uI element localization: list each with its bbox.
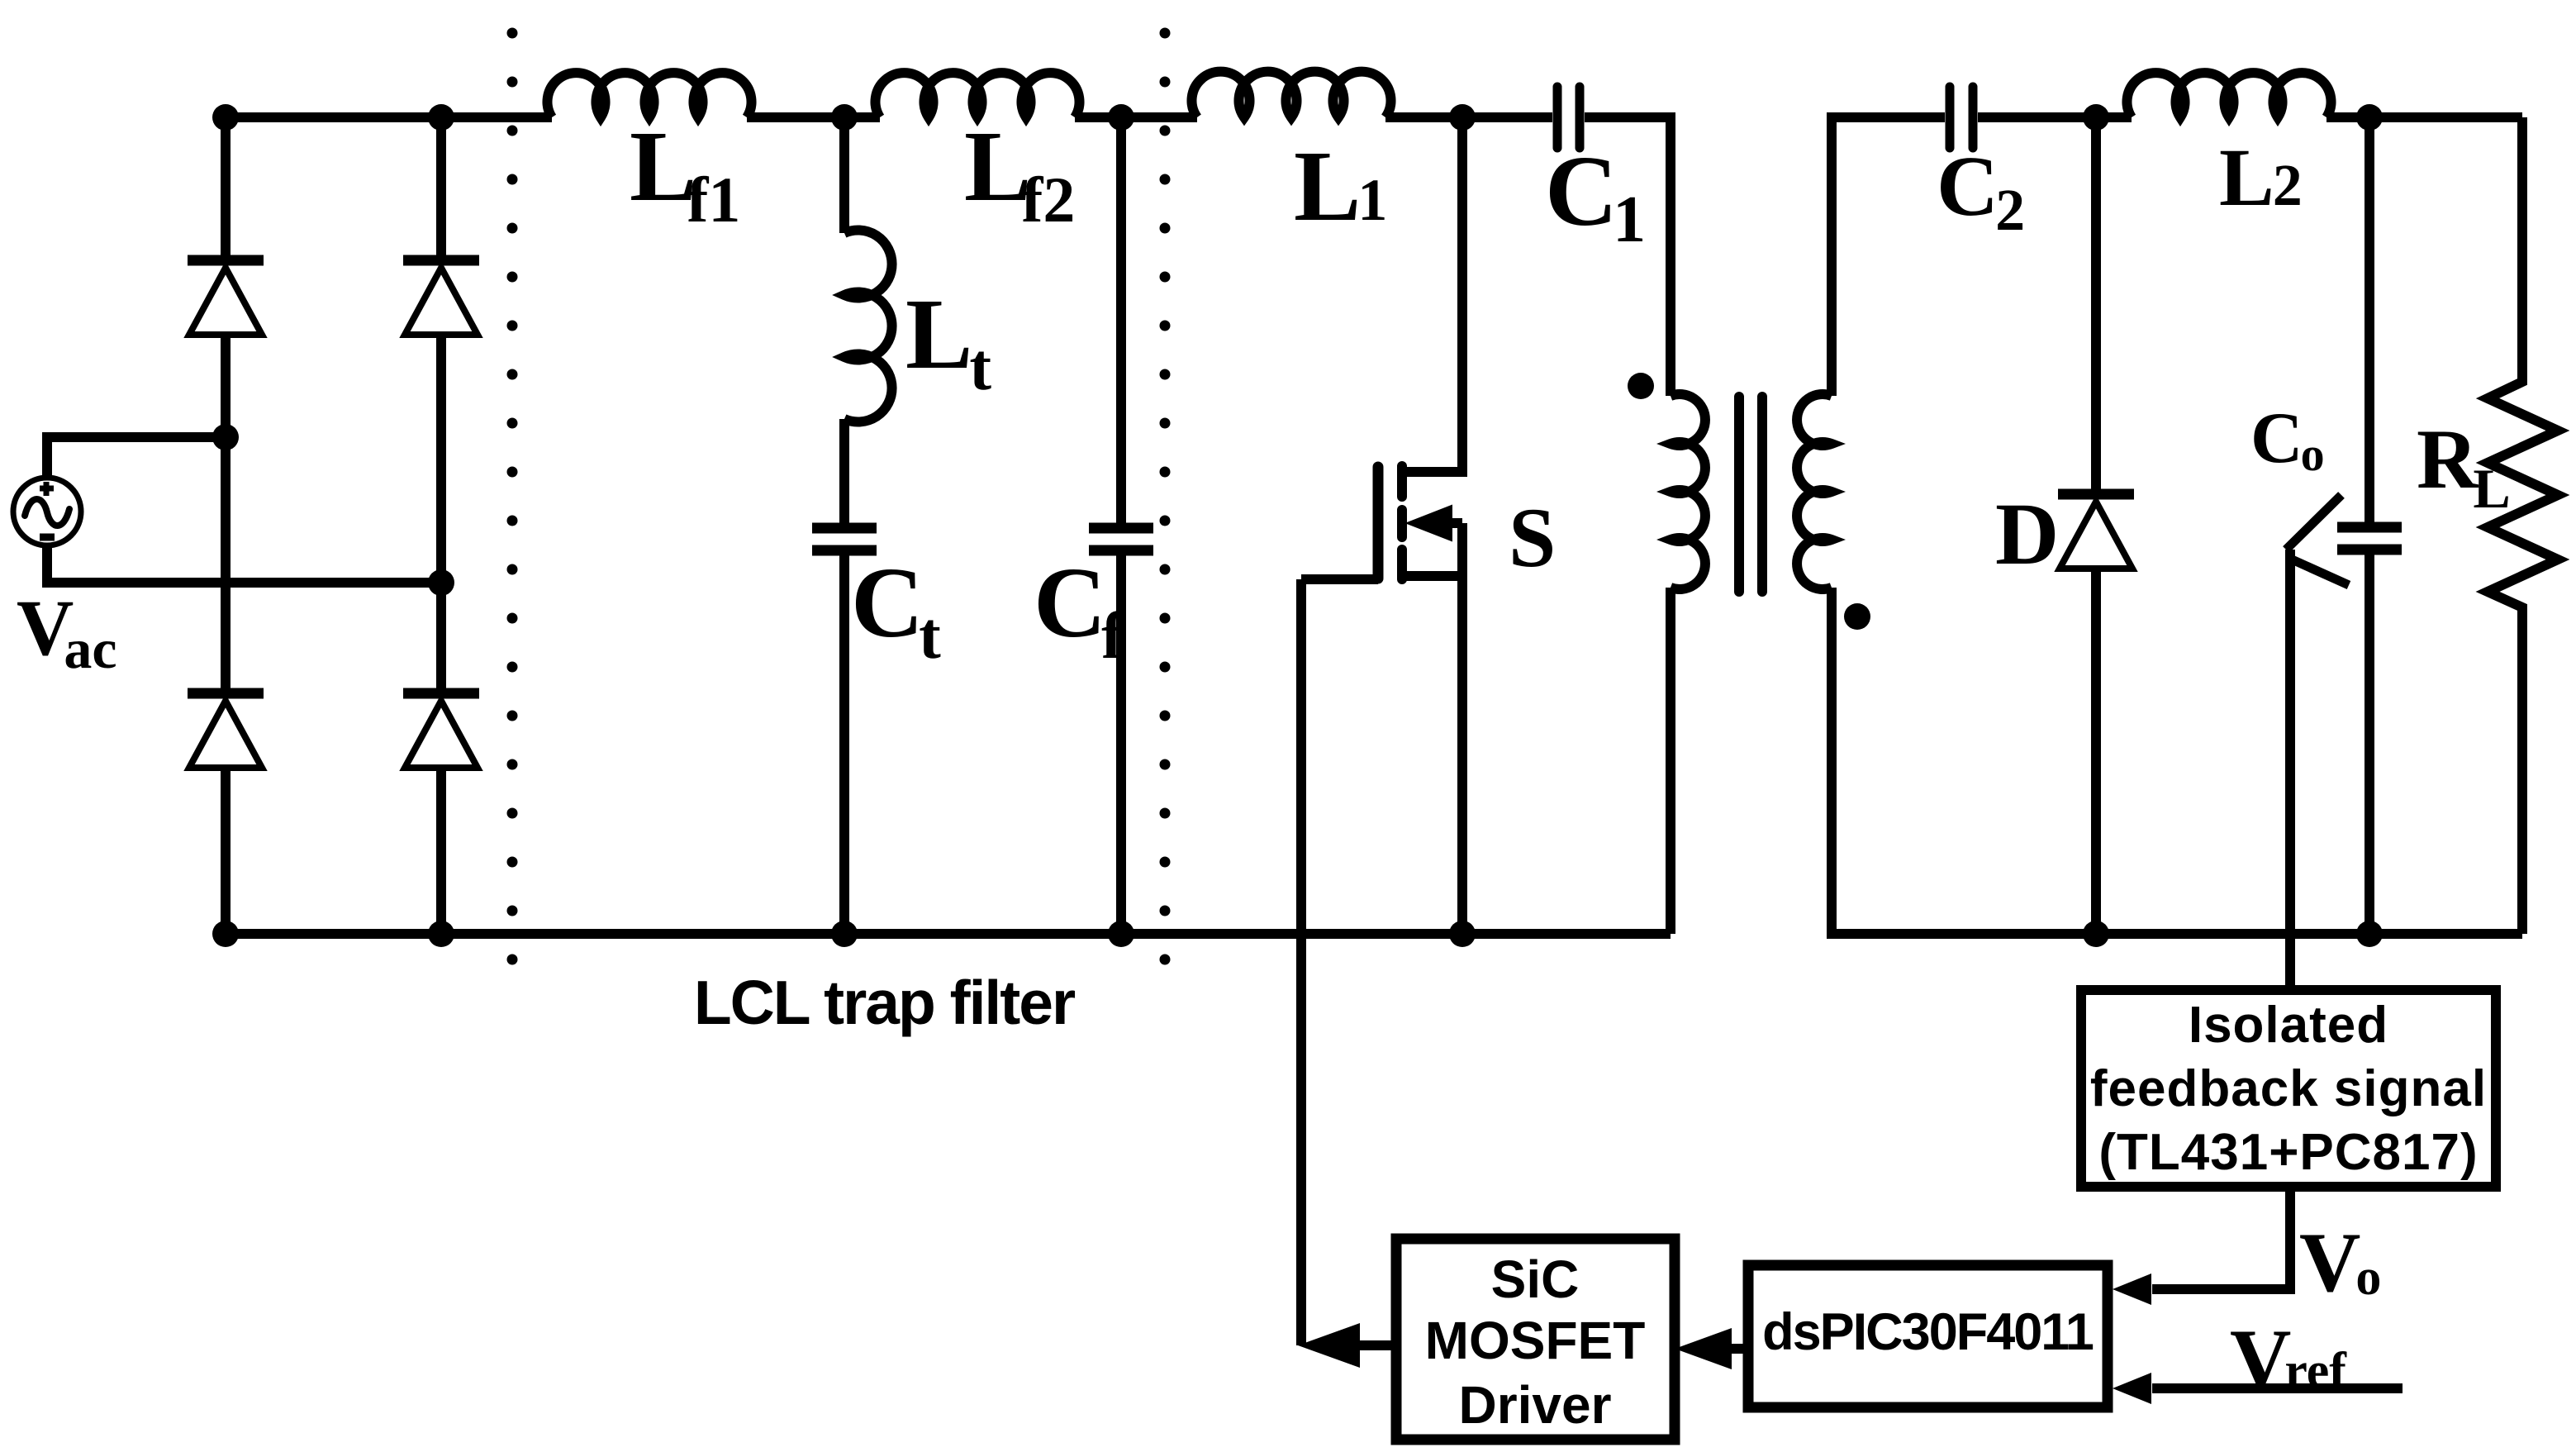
- inductor L2: [2127, 73, 2331, 117]
- wire primary winding to bottom rail: [1666, 588, 1675, 934]
- arrowhead dsPIC to driver: [1675, 1328, 1732, 1369]
- wire bottom rail primary side: [226, 929, 1671, 939]
- node MOSFET source: [1449, 921, 1476, 947]
- svg-text:Vo: Vo: [2299, 1216, 2381, 1310]
- svg-text:D: D: [1995, 486, 2059, 583]
- diode D2 (bridge upper-right): [403, 260, 479, 335]
- diode D1 (bridge upper-left): [188, 260, 264, 335]
- svg-text:Vref: Vref: [2230, 1312, 2347, 1407]
- capacitor C2: [1950, 87, 1973, 148]
- capacitor C1: [1557, 87, 1580, 148]
- node MOSFET drain: [1449, 104, 1476, 131]
- arrowhead driver to gate: [1298, 1323, 1360, 1368]
- wire right bridge leg: [436, 117, 446, 934]
- svg-text:(TL431+PC817): (TL431+PC817): [2098, 1124, 2478, 1181]
- wire secondary top: [1832, 117, 1945, 396]
- wire Cf branch upper: [1116, 117, 1126, 523]
- svg-text:SiC: SiC: [1491, 1250, 1580, 1309]
- svg-text:S: S: [1509, 491, 1556, 585]
- wire dsPIC to driver arrow shaft: [1718, 1344, 1748, 1354]
- svg-text:C2: C2: [1937, 139, 2025, 243]
- svg-text:LCL trap filter: LCL trap filter: [694, 968, 1076, 1037]
- svg-text:Vac: Vac: [17, 583, 117, 680]
- box Isolated feedback signal (TL431+PC817): [2081, 990, 2496, 1187]
- svg-text:Lf2: Lf2: [964, 111, 1075, 236]
- wire Vac positive lead: [47, 437, 226, 478]
- svg-text:C1: C1: [1545, 136, 1646, 256]
- svg-text:L2: L2: [2219, 131, 2303, 223]
- svg-text:Ct: Ct: [851, 547, 941, 673]
- inductor Lf2: [876, 73, 1080, 117]
- node top-right bridge: [428, 104, 454, 131]
- wire gate to driver: [1296, 579, 1306, 1345]
- node diode D top: [2083, 104, 2109, 131]
- arrowhead Vo into dsPIC: [2113, 1273, 2151, 1305]
- wire Vac negative lead: [47, 545, 441, 583]
- boundary dotted line right of LCL filter: [1160, 33, 1171, 1003]
- node Co bottom: [2356, 921, 2383, 947]
- wire Vref input: [2152, 1383, 2403, 1393]
- wire C1 to transformer primary: [1585, 117, 1671, 396]
- diode D4 (bridge lower-right): [403, 693, 479, 768]
- capacitor Co: [2337, 527, 2402, 550]
- box SiC MOSFET Driver: [1396, 1239, 1675, 1440]
- svg-text:MOSFET: MOSFET: [1425, 1311, 1646, 1370]
- svg-text:Lf1: Lf1: [630, 111, 740, 236]
- wire C2 to L2: [1978, 112, 2132, 122]
- wire Vo feedback to dsPIC: [2152, 1187, 2290, 1289]
- svg-text:RL: RL: [2417, 412, 2511, 520]
- box dsPIC30F4011: [1748, 1265, 2108, 1407]
- transformer T1 primary winding: [1671, 394, 1705, 589]
- wire left bridge leg upper: [221, 117, 231, 934]
- node Vac plus: [212, 424, 239, 450]
- wire Ct to bottom rail: [839, 555, 849, 934]
- svg-text:dsPIC30F4011: dsPIC30F4011: [1762, 1303, 2094, 1361]
- wire L1 to C1: [1385, 112, 1552, 122]
- transformer T1 core: [1739, 397, 1762, 592]
- node Ct bottom: [831, 921, 858, 947]
- svg-text:feedback signal: feedback signal: [2090, 1060, 2487, 1117]
- wire top rail left (bridge to Lf1): [226, 112, 552, 122]
- svg-text:Cf: Cf: [1034, 547, 1124, 673]
- node Cf bottom: [1108, 921, 1134, 947]
- transistor S (SiC MOSFET): [1301, 117, 1462, 934]
- diode D (output rectifier): [2058, 494, 2134, 569]
- node bottom-left bridge: [212, 921, 239, 947]
- transformer T1 secondary winding: [1797, 394, 1832, 589]
- wire Co branch: [2365, 117, 2374, 934]
- arrowhead Vref into dsPIC: [2113, 1373, 2151, 1404]
- diode D3 (bridge lower-left): [188, 693, 264, 768]
- node top-left bridge: [212, 104, 239, 131]
- wire Lt to Ct: [839, 419, 849, 523]
- svg-text:Lt: Lt: [905, 278, 991, 404]
- wire feedback tap arrow: [2286, 495, 2349, 990]
- node Cf top: [1108, 104, 1134, 131]
- wire Lf2 to L1: [1075, 112, 1197, 122]
- node Co top: [2356, 104, 2383, 131]
- wire driver to gate arrow shaft: [1343, 1340, 1396, 1350]
- wire L2 to load: [2326, 112, 2522, 122]
- wire secondary bottom rail: [1832, 588, 2522, 934]
- node primary polarity dot: [1628, 373, 1654, 399]
- wire Lt branch upper: [839, 117, 849, 233]
- inductor L1: [1192, 72, 1391, 117]
- capacitor Cf: [1089, 528, 1153, 550]
- svg-text:L1: L1: [1294, 131, 1387, 242]
- node diode D bottom: [2083, 921, 2109, 947]
- arrowheads: [1298, 1273, 2151, 1404]
- capacitor Ct: [812, 528, 877, 550]
- svg-text:Co: Co: [2250, 398, 2325, 481]
- boundary dotted line left of LCL filter: [507, 33, 518, 1003]
- inductor Lt: [844, 230, 892, 421]
- node Vac minus: [428, 569, 454, 596]
- svg-text:Driver: Driver: [1459, 1375, 1612, 1435]
- inductor Lf1: [547, 73, 751, 117]
- wire diode D branch: [2091, 117, 2101, 934]
- svg-text:Isolated: Isolated: [2189, 997, 2388, 1054]
- wire Cf to bottom rail: [1116, 555, 1126, 934]
- wire Lf1 to Lf2: [747, 112, 880, 122]
- node bottom-right bridge: [428, 921, 454, 947]
- resistor RL: [2488, 117, 2558, 934]
- node secondary polarity dot: [1844, 603, 1870, 630]
- node Lt top: [831, 104, 858, 131]
- source Vac (AC source): [13, 478, 81, 545]
